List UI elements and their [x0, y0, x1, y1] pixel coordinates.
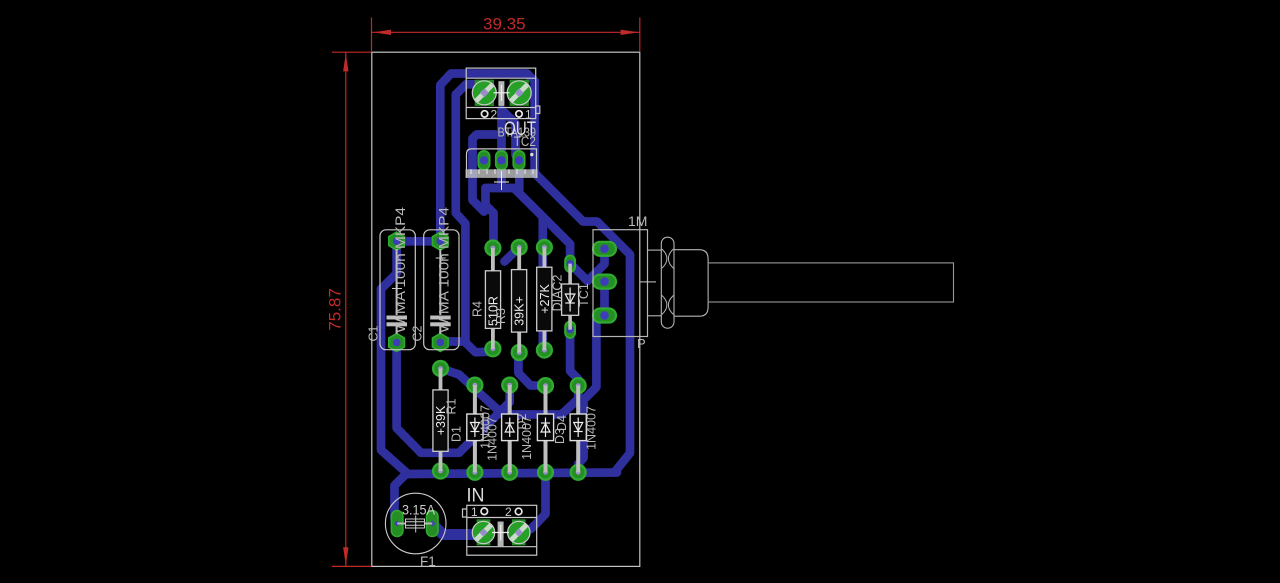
- svg-text:R1: R1: [445, 398, 459, 414]
- svg-text:R4: R4: [471, 301, 485, 317]
- svg-text:C2: C2: [410, 325, 424, 341]
- svg-text:39K+: 39K+: [513, 296, 527, 326]
- svg-text:1N4007: 1N4007: [585, 406, 599, 450]
- svg-text:WIMA 100n MKP4: WIMA 100n MKP4: [392, 207, 408, 333]
- svg-text:TC1: TC1: [577, 283, 591, 307]
- svg-text:2: 2: [505, 505, 512, 519]
- svg-text:2: 2: [491, 107, 498, 121]
- svg-text:WIMA 100n MKP4: WIMA 100n MKP4: [436, 207, 452, 333]
- svg-text:1: 1: [471, 505, 478, 519]
- svg-text:75.87: 75.87: [326, 288, 345, 331]
- svg-text:C1: C1: [367, 325, 381, 341]
- svg-text:IN: IN: [467, 486, 485, 507]
- svg-text:1M: 1M: [628, 213, 647, 229]
- svg-text:D2: D2: [515, 413, 529, 429]
- svg-text:TC2: TC2: [514, 134, 536, 149]
- svg-text:39.35: 39.35: [483, 15, 526, 34]
- svg-text:R3: R3: [494, 308, 508, 324]
- svg-text:D1: D1: [450, 426, 464, 442]
- svg-text:D4: D4: [555, 415, 569, 431]
- svg-text:1N4007: 1N4007: [486, 417, 500, 461]
- svg-text:P: P: [637, 336, 646, 351]
- svg-text:3.15A: 3.15A: [402, 503, 435, 518]
